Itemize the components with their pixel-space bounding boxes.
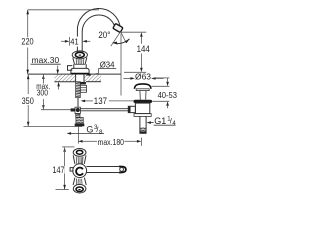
faucet base flange [71,68,89,74]
dimension 40-53 [154,77,169,79]
dimension 137 [85,100,93,102]
drain body [135,103,149,114]
svg-text:147: 147 [53,165,65,175]
drain side port [128,106,135,112]
drain neck [139,91,141,100]
wire top reference line (spout apex level) [28,9,99,11]
body circle (plan) [73,164,87,178]
svg-text:41: 41 [70,37,79,47]
faucet spout vertical legs [76,31,78,52]
dimension 147 [62,146,75,148]
tee fitting [75,107,80,113]
pop-up rod knob [68,66,73,71]
svg-text:8: 8 [99,129,103,136]
dimension 41 [70,37,80,47]
svg-text:G1: G1 [154,116,166,126]
mounting washer [80,82,86,85]
svg-text:Ø63: Ø63 [135,72,151,82]
faucet body cylinder [73,64,75,68]
svg-text:max.30: max.30 [32,55,60,65]
dimension max.300 vertical [42,75,45,80]
top handle knob (plan) [73,149,86,157]
svg-text:max.180: max.180 [98,137,125,147]
dimension max.180 [78,140,83,143]
horizontal pop-up rod to drain [81,108,129,110]
dimension Ø63 [123,77,131,79]
supply pipe [77,98,79,108]
threaded shank through deck [75,74,77,82]
dimension max.30 up arrow [57,82,60,87]
supply nipple G3/8 [76,113,80,117]
aerator outlet [113,23,123,32]
svg-text:137: 137 [94,96,107,106]
body tab [70,168,73,172]
wire flow direction line 20deg right [121,32,126,43]
drain nut [134,114,151,117]
faucet spout arc [77,8,120,31]
wire 350 bottom reference line [24,126,83,128]
dimension 144 [121,31,146,33]
threaded rod below deck [76,82,81,98]
angle arc 20deg with arrowheads [113,39,130,44]
faucet head inner ring [75,52,84,57]
dimension 220 vertical line [27,10,29,37]
spout tube (plan) [87,166,119,168]
label G 3/8 with leader [67,132,72,135]
dimension max.30 down arrow [57,66,59,71]
svg-text:40-53: 40-53 [158,90,178,100]
countertop deck cross-section [54,74,75,82]
drain pop-up dome [134,84,151,89]
wire max300 bottom reference line [41,109,71,111]
mounting clamp bracket [80,85,86,92]
faucet knurled skirt [73,58,75,65]
drain tailpipe [139,116,141,133]
svg-text:300: 300 [37,88,49,97]
wire vertical reference from outlet [120,34,122,96]
svg-text:144: 144 [137,44,150,54]
faucet head outer ellipse [72,51,87,59]
thin extension below nipple [77,126,79,143]
dimension 350 vertical line [27,75,29,94]
bottom handle knob (plan) [73,178,75,185]
svg-text:G: G [86,124,93,134]
label G1 1/4 with leader [146,121,151,124]
svg-text:220: 220 [21,36,33,46]
svg-text:20°: 20° [98,30,110,40]
drain flange [134,100,153,103]
svg-text:350: 350 [22,96,34,106]
wire flow direction line 20deg left [111,33,120,46]
svg-text:Ø34: Ø34 [100,59,115,69]
